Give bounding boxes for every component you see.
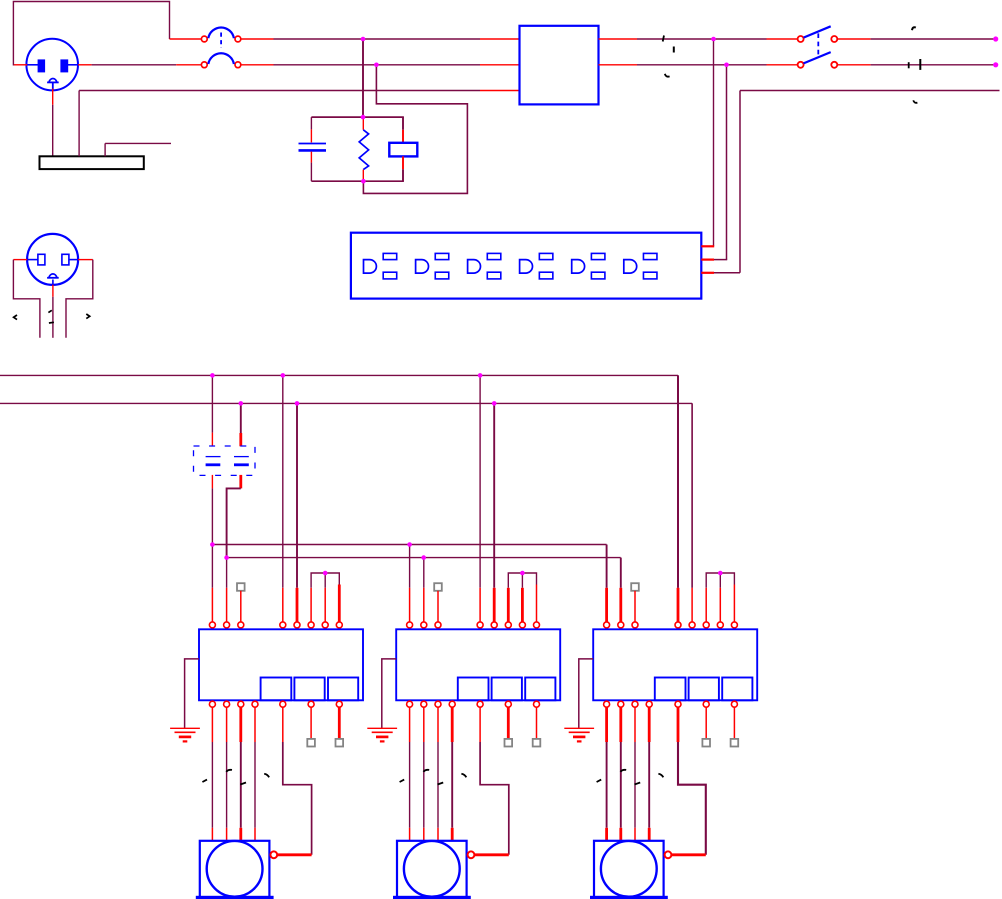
module U2 controller body — [396, 629, 560, 700]
resistor R1 lead bottom — [362, 170, 364, 182]
module U2 bottom pin 6 — [505, 701, 511, 707]
module U2 pin4 feed — [479, 375, 481, 587]
module U2 spare terminal square 1 — [507, 707, 510, 739]
plug P2 right wire — [78, 259, 93, 261]
module U3 pin2 feed — [620, 558, 622, 588]
module U1 pin6 feed — [310, 588, 312, 622]
module U1 bottom pin 5 — [280, 701, 286, 707]
switch S1 pole1 blade — [804, 26, 831, 37]
battery BT2 negative lead — [239, 475, 242, 489]
plug P2 ground wire — [52, 285, 54, 297]
module U3 pin4 feed — [677, 375, 679, 587]
node tank bottom — [361, 179, 366, 184]
module U2 bottom pin 4 — [449, 701, 455, 707]
motor M3 base bar — [591, 896, 668, 899]
module U1 spare terminal square 1 — [310, 707, 312, 739]
label tick P2 b — [49, 321, 54, 324]
RC tank top rail — [311, 116, 404, 118]
module U1 motor lead x=227 — [226, 707, 228, 742]
module U2 relay block 3 — [525, 678, 555, 701]
relay coil K1 lead bottom — [402, 156, 404, 169]
wire L1 filter to switch — [599, 38, 638, 40]
module U3 relay block 1 — [655, 678, 686, 701]
resistor R1 zigzag — [359, 130, 368, 170]
switch S1 pole2 terminals — [798, 62, 804, 68]
outlet 4 ground D — [520, 260, 533, 274]
module U2 ground wire — [382, 659, 396, 728]
module U3 top pin 7 — [717, 622, 723, 628]
battery BT2 cell plates — [234, 456, 249, 458]
battery BT1 positive lead — [211, 375, 213, 432]
label tick P2 a — [48, 310, 51, 312]
module U2 pin2 feed — [423, 558, 425, 588]
breaker gang link — [220, 33, 222, 49]
module U2 pin5 feed — [493, 403, 495, 587]
outlet 5 slot bottom — [591, 272, 605, 279]
module U3 aux lead to motor terminal — [677, 707, 680, 742]
label hook above L1 right — [912, 27, 916, 30]
module U1 contact bus node — [323, 571, 328, 576]
wire G1 drop to strip — [739, 91, 741, 273]
module U2 top pin 5 — [491, 622, 497, 628]
label angle-left P2 — [14, 315, 17, 320]
module U1 pin2 feed — [226, 558, 228, 588]
module U1 bottom pin 2 — [224, 701, 230, 707]
module U3 contact bus node — [718, 571, 723, 576]
module U2 contact bus node — [520, 571, 525, 576]
module U1 controller body — [199, 629, 363, 700]
module U1 relay block 2 — [294, 678, 324, 701]
module U1 pin1 feed — [211, 545, 213, 588]
module U2 top pin 4 — [477, 622, 483, 628]
outlet 3 slot top — [487, 253, 501, 259]
motor M3 rotor circle — [601, 841, 657, 897]
module U2 motor lead x=410 — [409, 707, 411, 742]
module U3 bottom pin 7 — [731, 701, 737, 707]
outlet 3 slot bottom — [487, 272, 501, 279]
wire A1 to tank — [362, 39, 364, 117]
battery enclosure dashed box — [194, 446, 256, 475]
plug P1 left prong — [38, 60, 45, 72]
motor M2 body — [397, 841, 467, 897]
module U3 pin6 feed — [705, 588, 707, 622]
outlet 5 ground D — [572, 260, 585, 274]
module U1 top pin 7 — [322, 622, 328, 628]
bus wire A — [0, 374, 678, 376]
motor M1 rotor circle — [207, 841, 263, 897]
node junction L1-strip — [711, 37, 716, 42]
node C module2 — [407, 542, 412, 547]
breaker F2 arc — [208, 53, 234, 64]
module U2 contact bus — [508, 573, 536, 588]
outlet 5 slot top — [591, 253, 605, 259]
module U2 pin6 feed — [507, 588, 510, 622]
node B-module2 — [492, 401, 497, 406]
plug P1 prong stubs — [26, 64, 38, 66]
outlet 1 slot top — [383, 253, 397, 259]
module U1 pin3 terminal square — [237, 583, 245, 591]
ground bus bar — [40, 156, 144, 169]
wire G1 horizontal run — [78, 91, 80, 157]
wire L1 fuse to filter — [241, 38, 274, 40]
outlet 3 ground D — [468, 260, 481, 274]
module U2 bottom pin 1 — [407, 701, 413, 707]
module U3 contact bus — [706, 573, 734, 588]
module U1 relay block 1 — [261, 678, 292, 701]
label tick on N1 right a — [908, 62, 910, 68]
module U3 top pin 2 — [618, 622, 624, 628]
breaker F1 terminals — [201, 36, 207, 42]
motor M1 body — [200, 841, 270, 897]
module U2 top pin 3 — [435, 622, 441, 628]
module U2 top pin 8 — [534, 622, 540, 628]
motor M1 terminal wire — [277, 853, 311, 856]
battery BT1 negative lead — [211, 475, 213, 489]
breaker F2 terminals — [201, 62, 207, 68]
label tick motor M2 d — [461, 774, 466, 778]
module U3 top pin 6 — [703, 622, 709, 628]
label tick motor M1 a — [202, 780, 207, 782]
module U3 top pin 5 — [689, 622, 695, 628]
node A-module2 — [478, 373, 483, 378]
ground symbol module U1 — [170, 727, 200, 729]
bus wire B — [0, 402, 692, 404]
label tick below L1 — [673, 47, 675, 53]
module U2 pin3 feed — [437, 591, 439, 622]
module U3 bottom pin 5 — [675, 701, 681, 707]
label tick on L1 — [663, 36, 664, 42]
label tick motor M1 b — [226, 770, 232, 772]
wire N1 fuse to filter — [241, 64, 274, 66]
module U2 bottom pin 3 — [435, 701, 441, 707]
module U3 relay block 3 — [722, 678, 752, 701]
outlet 6 ground D — [624, 260, 637, 274]
label tick motor M2 a — [400, 780, 405, 782]
module U2 motor lead x=424 — [423, 707, 425, 742]
wire G1 right segment — [740, 90, 1000, 92]
switch S1 pole1 terminals — [798, 36, 804, 42]
label tick motor M3 d — [658, 774, 663, 778]
relay coil K1 lead top — [402, 117, 404, 130]
module U1 top pin 1 — [209, 622, 215, 628]
resistor R1 lead top — [362, 117, 364, 130]
plug P2 right slot — [62, 254, 69, 265]
module U1 aux lead to motor terminal — [282, 707, 284, 742]
module U1 motor lead x=255 — [254, 707, 256, 742]
outlet 2 slot bottom — [435, 272, 449, 279]
RC tank bottom rail — [311, 180, 404, 182]
motor M1 terminal — [270, 851, 277, 858]
motor M2 rotor circle — [404, 841, 460, 897]
motor M2 terminal wire — [474, 853, 508, 856]
module U3 pin1 feed — [606, 545, 608, 588]
module U1 motor lead x=241 — [239, 707, 242, 742]
module U2 pin1 feed — [409, 545, 411, 588]
plug P2 stubs — [27, 259, 38, 261]
module U3 pin3 feed — [634, 591, 636, 622]
node junction A1 — [361, 37, 366, 42]
wire L1 drop to strip — [713, 39, 715, 246]
module U3 bottom pin 2 — [618, 701, 624, 707]
module U2 bottom pin 5 — [477, 701, 483, 707]
module U1 bottom pin 4 — [252, 701, 258, 707]
label tick motor M2 b — [424, 770, 430, 772]
switch S1 pole2 blade — [804, 52, 831, 63]
module U1 top pin 6 — [308, 622, 314, 628]
module U3 relay block 2 — [689, 678, 719, 701]
node connector L1 edge — [993, 36, 998, 41]
plug P2 left slot — [38, 254, 45, 265]
module U2 top pin 6 — [505, 622, 511, 628]
label tick motor M1 c — [240, 783, 246, 785]
breaker F1 arc — [208, 27, 234, 38]
module U2 top pin 1 — [407, 622, 413, 628]
wire N1 from plug to fuse — [78, 64, 92, 66]
module U2 bottom pin 7 — [534, 701, 540, 707]
wire tank return loop — [363, 65, 467, 194]
switch S1 gang link — [817, 33, 819, 56]
module U2 relay block 2 — [492, 678, 522, 701]
module U3 motor lead x=607 — [605, 707, 608, 742]
module U2 bottom pin 2 — [421, 701, 427, 707]
battery BT1 cell1 plates — [206, 456, 221, 458]
module U1 top pin 5 — [294, 622, 300, 628]
module U1 top pin 4 — [280, 622, 286, 628]
module U3 ground wire — [579, 659, 593, 728]
wire N1 filter to switch — [599, 64, 638, 66]
node connector N1 edge — [993, 62, 998, 67]
module U2 aux lead to motor terminal — [479, 707, 481, 742]
module U1 pin8 feed — [338, 585, 341, 622]
module U1 relay block 3 — [328, 678, 358, 701]
module U3 top pin 3 — [632, 622, 638, 628]
outlet 2 ground D — [416, 260, 429, 274]
module U3 top pin 8 — [731, 622, 737, 628]
ground symbol module U3 — [564, 727, 594, 729]
module U3 motor lead x=621 — [619, 707, 622, 742]
strip feed stub L — [701, 245, 714, 247]
label tick motor M1 d — [264, 774, 269, 778]
power strip J1 body — [351, 233, 701, 299]
module U2 top pin 7 — [519, 622, 525, 628]
module U3 pin3 terminal square — [631, 583, 639, 591]
label tick on N1 right b — [919, 59, 921, 70]
plug P2 left wire — [13, 259, 27, 261]
outlet 6 slot bottom — [643, 272, 657, 279]
module U3 top pin 1 — [604, 622, 610, 628]
plug P1 right prong — [61, 60, 68, 72]
module U1 bottom pin 1 — [209, 701, 215, 707]
capacitor C1 lead bottom — [310, 152, 312, 163]
module U1 top pin 3 — [238, 622, 244, 628]
module U1 bottom pin 6 — [308, 701, 314, 707]
module U3 spare terminal square 1 — [705, 707, 707, 739]
module U2 top pin 2 — [421, 622, 427, 628]
module U3 motor lead x=649 — [648, 707, 651, 742]
wire N1 drop to strip — [726, 65, 728, 260]
module U1 pin7 feed — [324, 573, 326, 588]
outlet 4 slot top — [539, 253, 553, 259]
label tick motor M3 c — [635, 783, 641, 785]
node junction N1-strip — [724, 63, 729, 68]
module U1 bottom pin 7 — [336, 701, 342, 707]
wire L1 top rail from plug — [13, 64, 27, 66]
capacitor C1 lead top — [310, 117, 312, 129]
module U3 bottom pin 3 — [632, 701, 638, 707]
module U1 top pin 2 — [224, 622, 230, 628]
motor M3 body — [594, 841, 664, 897]
motor M2 base bar — [394, 896, 471, 899]
node B-module1 — [295, 401, 300, 406]
plug P2 ground dome — [47, 277, 59, 279]
motor M3 terminal wire — [671, 853, 705, 856]
module U2 pin8 feed — [536, 585, 538, 622]
wire A corner to module3 — [677, 375, 679, 587]
label comma below N1 — [665, 74, 670, 77]
module U1 pin5 feed — [296, 403, 298, 587]
module U1 pin4 feed — [282, 375, 284, 587]
wire N1 switch to edge — [837, 64, 870, 66]
outlet 4 slot bottom — [539, 272, 553, 279]
outlet 1 ground D — [364, 260, 377, 274]
ground symbol module U2 — [367, 727, 397, 729]
bus wire C — [212, 544, 606, 546]
module U3 pin5 feed — [691, 403, 693, 587]
motor M3 terminal — [665, 851, 672, 858]
module U3 top pin 4 — [675, 622, 681, 628]
node C left — [210, 542, 215, 547]
node D left — [224, 555, 229, 560]
module U2 pin3 terminal square — [434, 583, 442, 591]
module U3 bottom pin 4 — [646, 701, 652, 707]
label angle-right P2 — [86, 314, 89, 319]
module U1 pin3 feed — [240, 591, 242, 622]
node D module2 — [421, 555, 426, 560]
module U2 motor lead x=438 — [437, 707, 439, 742]
strip feed stub N — [714, 259, 727, 261]
module U2 pin7 feed — [521, 573, 523, 588]
module U3 bottom pin 1 — [604, 701, 610, 707]
motor M2 terminal — [468, 851, 475, 858]
module U3 motor lead x=635 — [634, 707, 636, 742]
bus wire D — [227, 557, 621, 559]
node A-module1 — [281, 373, 286, 378]
motor M1 base bar — [196, 896, 273, 899]
plug P1 ground pin — [47, 81, 59, 83]
wire B corner to module3 — [691, 403, 693, 587]
module U1 motor lead x=212 — [211, 707, 213, 742]
module U1 contact bus — [311, 573, 339, 588]
module U1 ground wire — [185, 659, 199, 728]
wire G1 plug ground down — [52, 89, 54, 105]
module U2 spare terminal square 2 — [536, 707, 538, 739]
EMI filter U1 — [520, 26, 599, 105]
module U2 motor lead x=452 — [451, 707, 454, 742]
outlet 2 slot top — [435, 253, 449, 259]
module U1 bottom pin 3 — [238, 701, 244, 707]
module U3 pin8 feed — [733, 585, 735, 622]
strip feed stub G — [714, 272, 740, 274]
module U3 controller body — [593, 629, 757, 700]
module U3 spare terminal square 2 — [733, 707, 735, 739]
wire G stub to bus bar — [104, 143, 106, 156]
outlet 1 slot bottom — [383, 272, 397, 279]
wire L1 switch to edge — [837, 38, 870, 40]
outlet 6 slot top — [643, 253, 657, 259]
battery BT2 positive lead — [240, 403, 242, 433]
module U2 relay block 1 — [458, 678, 489, 701]
relay coil K1 body — [389, 143, 417, 157]
module U1 spare terminal square 2 — [338, 707, 341, 739]
label tick motor M2 c — [438, 783, 444, 785]
module U1 top pin 8 — [336, 622, 342, 628]
plug P2 body — [27, 234, 78, 285]
label comma below G1 right — [913, 100, 917, 103]
node A-battery — [210, 373, 215, 378]
module U3 pin7 feed — [719, 573, 721, 588]
label tick motor M3 a — [597, 780, 602, 782]
plug P1 body — [26, 39, 78, 91]
module U3 bottom pin 6 — [703, 701, 709, 707]
capacitor C1 plates — [299, 143, 327, 145]
node junction B1 — [374, 63, 379, 68]
node B-battery — [239, 401, 244, 406]
label tick motor M3 b — [621, 770, 627, 772]
node tank top — [361, 115, 366, 120]
